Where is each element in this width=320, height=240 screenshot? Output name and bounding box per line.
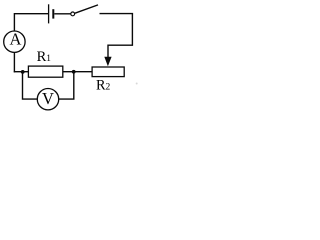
wire: right side down, jog left, down to rheostat slider bbox=[108, 14, 132, 58]
ammeter A: circle bbox=[4, 31, 25, 52]
wire: voltmeter loop left (node A down and right) bbox=[23, 72, 38, 99]
rheostat R2 box bbox=[92, 67, 124, 77]
svg-text:R1: R1 bbox=[37, 49, 52, 65]
battery cell: short thick negative plate bbox=[52, 9, 54, 18]
svg-text:V: V bbox=[42, 89, 54, 108]
wire: ammeter top up and right to battery bbox=[14, 14, 48, 32]
junction node A (left of R1) bbox=[21, 70, 25, 74]
battery cell: long positive plate bbox=[48, 4, 50, 23]
stray speck artifact bbox=[136, 83, 138, 85]
voltmeter V: circle bbox=[37, 89, 58, 110]
wire: battery to switch pivot bbox=[54, 13, 71, 15]
wire: R1 left end through node A to left rail bbox=[14, 71, 29, 73]
wire: switch fixed contact to top-right corner bbox=[100, 13, 134, 15]
svg-text:R2: R2 bbox=[96, 78, 111, 94]
wire: node B to R1 right end bbox=[63, 71, 74, 73]
junction node B (right of R1) bbox=[72, 70, 76, 74]
switch S: open blade bbox=[75, 5, 98, 13]
rheostat slider arrowhead bbox=[104, 57, 111, 66]
wire: voltmeter loop right (up to node B) bbox=[59, 72, 74, 99]
wire: R2 left end to node B bbox=[74, 71, 92, 73]
svg-text:A: A bbox=[9, 29, 21, 48]
switch S: pivot circle bbox=[71, 12, 75, 16]
wire: left rail from ammeter bottom down to R1 row bbox=[13, 52, 15, 72]
resistor R1 box bbox=[28, 66, 62, 77]
